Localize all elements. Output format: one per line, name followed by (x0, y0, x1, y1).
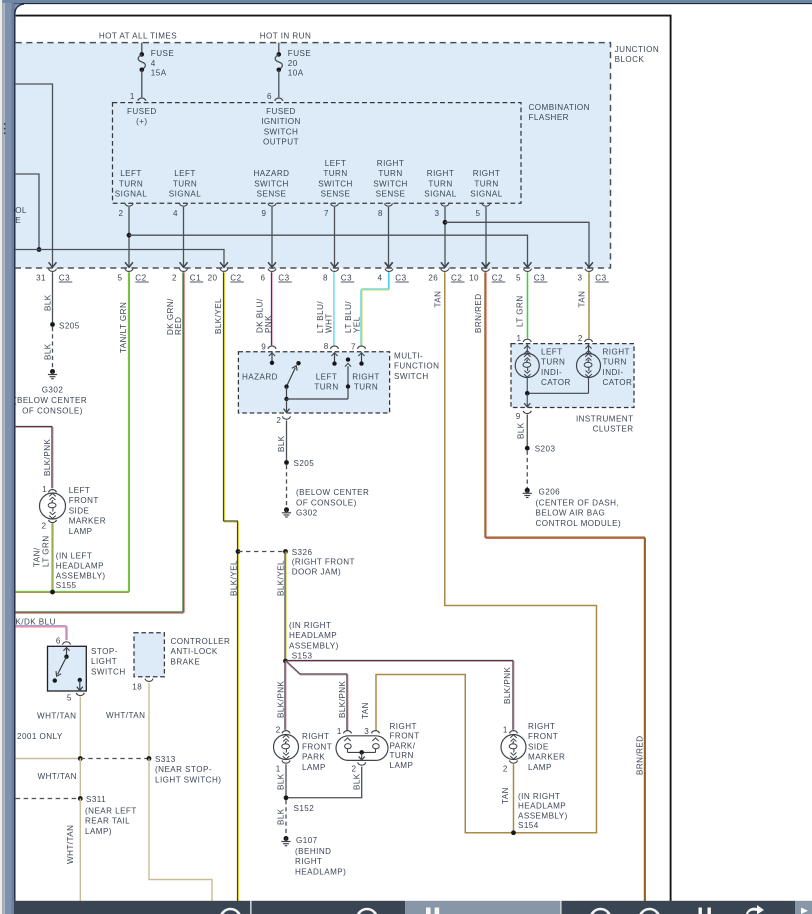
multi-function switch box (238, 352, 389, 413)
svg-text:G302: G302 (42, 386, 64, 395)
svg-text:WHT: WHT (325, 313, 334, 333)
toolbar icon circle 1 (221, 909, 241, 914)
svg-text:HEADLAMP): HEADLAMP) (295, 867, 346, 876)
wire LT BLU/YEL from 4 C3 (387, 272, 389, 289)
svg-text:OL: OL (15, 206, 27, 215)
svg-text:C2: C2 (492, 273, 503, 282)
svg-text:TURN: TURN (390, 751, 414, 760)
wire TAN/LT GRN from 5 C2 (127, 272, 129, 592)
svg-text:2: 2 (276, 726, 281, 735)
toolbar icon pause (426, 908, 431, 914)
splice S153 (283, 659, 288, 664)
svg-text:FUSE: FUSE (151, 49, 175, 58)
fuse F4 15A (141, 43, 143, 55)
svg-text:G107: G107 (296, 836, 318, 845)
wire WHT/TAN CAB to bottom jog (149, 759, 212, 902)
svg-text:C2: C2 (230, 273, 241, 282)
svg-text:S311: S311 (86, 795, 106, 804)
svg-text:BLK/PNK: BLK/PNK (503, 667, 512, 704)
svg-text:LAMP: LAMP (69, 527, 93, 536)
svg-text:SWITCH: SWITCH (254, 179, 289, 188)
left front side marker lamp (40, 493, 66, 519)
wire flasher pin 3 to connector row (444, 207, 446, 267)
splice S203 (525, 446, 530, 451)
svg-text:S152: S152 (294, 804, 315, 813)
svg-text:3: 3 (578, 273, 583, 282)
park/turn internal bus (348, 751, 376, 753)
splice S205 (MFS) (284, 460, 289, 465)
toolbar dark segment 3 (560, 901, 562, 914)
toolbar right triangle (801, 908, 808, 914)
svg-text:BLK/PNK: BLK/PNK (43, 439, 52, 476)
svg-text:BLK: BLK (44, 343, 53, 360)
svg-text:RIGHT: RIGHT (528, 722, 555, 731)
MFS pin 2 (283, 416, 291, 419)
right front park/turn lamp pin 2 (358, 762, 366, 765)
svg-text:LEFT: LEFT (69, 486, 91, 495)
splice on pin3 wire (443, 220, 448, 225)
svg-text:(RIGHT FRONT: (RIGHT FRONT (292, 557, 355, 566)
svg-text:BLK: BLK (277, 773, 286, 790)
svg-text:8: 8 (323, 273, 328, 282)
ground G206 (525, 488, 530, 493)
svg-text:TURN: TURN (354, 383, 378, 392)
svg-text:BLK: BLK (353, 773, 362, 790)
svg-text:FLASHER: FLASHER (529, 113, 569, 122)
left front side marker lamp pin 1 (49, 490, 57, 493)
svg-text:SENSE: SENSE (376, 190, 406, 199)
svg-text:LAMP): LAMP) (85, 827, 112, 836)
svg-text:(IN RIGHT: (IN RIGHT (289, 621, 331, 630)
svg-text:HEADLAMP: HEADLAMP (518, 802, 566, 811)
svg-text:2: 2 (172, 273, 177, 282)
wire left module to connector 20 C2 (16, 250, 224, 267)
svg-text:G206: G206 (539, 487, 561, 496)
stop-light switch pin 6 (63, 642, 71, 645)
svg-text:7: 7 (324, 209, 329, 218)
left front side marker lamp pin 2 (49, 520, 57, 523)
wire BLK from 31 C3 (52, 272, 54, 324)
svg-text:LEFT: LEFT (120, 169, 142, 178)
svg-text:1: 1 (276, 765, 281, 774)
svg-text:PNK: PNK (264, 315, 273, 333)
svg-text:REAR TAIL: REAR TAIL (85, 817, 130, 826)
toolbar divider (250, 901, 252, 914)
svg-text:K/DK BLU: K/DK BLU (15, 618, 55, 627)
svg-text:S326: S326 (292, 548, 313, 557)
splice S311 (78, 796, 83, 801)
right front park lamp pin 1 (282, 760, 290, 763)
right front park/turn lamp pin 3 (372, 731, 380, 734)
CAB pin 18 (145, 679, 153, 682)
svg-text:(BELOW CENTER: (BELOW CENTER (14, 396, 87, 405)
svg-text:18: 18 (132, 683, 142, 692)
splice S205 (50, 322, 55, 327)
left turn indicator lamp (515, 354, 539, 378)
wire BLK dashed to G107 (285, 800, 287, 836)
cluster pin 2 (585, 339, 593, 342)
svg-text:CATOR: CATOR (541, 378, 571, 387)
wire branch to connector 3 C3 (445, 222, 589, 267)
svg-text:C2: C2 (135, 273, 146, 282)
ground G302 (below center of console) (284, 507, 289, 512)
svg-text:TURN: TURN (173, 179, 197, 188)
svg-text:LEFT: LEFT (541, 348, 563, 357)
svg-text:SIDE: SIDE (69, 506, 90, 515)
svg-text:TAN: TAN (501, 787, 510, 804)
svg-text:LIGHT: LIGHT (91, 657, 117, 666)
svg-text:SWITCH: SWITCH (373, 179, 408, 188)
right front side marker lamp pin 1 (510, 731, 518, 734)
wire flasher pin 2 to connector row (128, 207, 130, 267)
toolbar icon curved arrow (746, 905, 764, 914)
wire flasher pin 8 to connector row (388, 207, 390, 267)
splice S152 (284, 795, 289, 800)
svg-text:CONTROLLER: CONTROLLER (171, 637, 231, 646)
MFS pin 7 (358, 346, 366, 349)
svg-text:INSTRUMENT: INSTRUMENT (576, 415, 634, 424)
svg-text:C3: C3 (341, 273, 352, 282)
svg-text:WHT/TAN: WHT/TAN (37, 711, 76, 720)
wire BLK/YEL S326 to S153 (284, 552, 286, 662)
svg-text:ASSEMBLY): ASSEMBLY) (56, 572, 106, 581)
svg-text:BRN/RED: BRN/RED (636, 735, 645, 775)
MFS hazard fixed contact (296, 361, 300, 365)
svg-text:SWITCH: SWITCH (318, 179, 353, 188)
svg-text:TURN: TURN (119, 179, 143, 188)
stop-light switch pin 5 (76, 693, 84, 696)
svg-text:TAN: TAN (361, 702, 370, 719)
MFS turn blade (347, 366, 349, 399)
MFS right turn stub pin7 (361, 352, 363, 363)
svg-text:HEADLAMP: HEADLAMP (56, 561, 104, 570)
svg-text:9: 9 (261, 209, 266, 218)
wire BLK cluster pin9 to S203 (526, 415, 528, 449)
svg-text:2: 2 (503, 765, 508, 774)
svg-text:4: 4 (151, 59, 156, 68)
svg-text:1: 1 (42, 485, 47, 494)
svg-text:(+): (+) (136, 117, 147, 126)
svg-text:10A: 10A (288, 68, 304, 77)
MFS pin 9 (268, 346, 276, 349)
svg-text:FRONT: FRONT (302, 742, 332, 751)
svg-text:2001 ONLY: 2001 ONLY (17, 732, 63, 741)
flasher pin 2 (125, 203, 133, 206)
svg-text:FRONT: FRONT (528, 732, 558, 741)
right turn indicator lamp (577, 354, 601, 378)
junction block dashed border (16, 43, 611, 268)
svg-text:FUSED: FUSED (266, 107, 296, 116)
svg-text:5: 5 (67, 694, 72, 703)
svg-text:(IN LEFT: (IN LEFT (56, 551, 92, 560)
connector 26 C2 (441, 262, 449, 267)
svg-text:1: 1 (503, 726, 508, 735)
svg-text:10: 10 (469, 273, 479, 282)
svg-text:SWITCH: SWITCH (264, 127, 299, 136)
connector 20 C2 (220, 262, 228, 267)
right front side marker lamp pin 2 (510, 760, 518, 763)
svg-text:STOP-: STOP- (91, 647, 118, 656)
wire BLK/PNK left module to lamp (16, 425, 53, 427)
svg-text:2: 2 (351, 765, 356, 774)
splice S313 (147, 756, 152, 761)
svg-text:31: 31 (36, 273, 46, 282)
svg-text:WHT/TAN: WHT/TAN (38, 772, 77, 781)
flasher pin 5 (482, 203, 490, 206)
svg-text:COMBINATION: COMBINATION (529, 103, 590, 112)
svg-text:C3: C3 (59, 273, 70, 282)
svg-text:PARK/: PARK/ (390, 741, 416, 750)
svg-text:CLUSTER: CLUSTER (593, 425, 634, 434)
wire WHT/TAN stop-light pin5 down (79, 697, 81, 759)
cluster internal bus (526, 378, 528, 394)
svg-text:RIGHT: RIGHT (352, 372, 379, 381)
svg-text:LT GRN: LT GRN (515, 295, 524, 327)
svg-text:BLK/YEL: BLK/YEL (230, 560, 239, 596)
svg-text:LEFT: LEFT (174, 169, 196, 178)
svg-text:YEL: YEL (353, 316, 362, 333)
svg-text:BLK/PNK: BLK/PNK (338, 681, 347, 718)
svg-text:FUSE: FUSE (288, 49, 312, 58)
park/turn filament 1 (344, 738, 350, 741)
svg-text:WHT/TAN: WHT/TAN (106, 711, 145, 720)
wire BLK park/turn pin2 to S152 bus (286, 767, 362, 798)
svg-text:TURN: TURN (428, 179, 452, 188)
window top blue bar (2, 0, 812, 3)
MFS common bus (287, 398, 349, 400)
svg-text:1: 1 (130, 92, 135, 101)
svg-text:BLOCK: BLOCK (615, 55, 645, 64)
svg-text:OUTPUT: OUTPUT (263, 138, 299, 147)
svg-text:5: 5 (118, 273, 123, 282)
svg-text:MULTI-: MULTI- (394, 351, 423, 360)
svg-text:C2: C2 (451, 273, 462, 282)
splice S155 (50, 590, 55, 595)
svg-text:BRN/RED: BRN/RED (474, 293, 483, 333)
svg-text:BLK: BLK (277, 435, 286, 452)
svg-text:SIGNAL: SIGNAL (424, 190, 456, 199)
svg-text:2: 2 (578, 334, 583, 343)
svg-text:TAN: TAN (578, 291, 587, 308)
svg-text:CATOR: CATOR (603, 378, 633, 387)
svg-text:FUSED: FUSED (127, 107, 157, 116)
svg-text:8: 8 (324, 342, 329, 351)
svg-text:20: 20 (288, 59, 298, 68)
wire left module to connector 31 C3 (16, 84, 53, 267)
svg-text:TAN: TAN (433, 291, 442, 308)
MFS hazard blade (287, 368, 296, 387)
wire flasher pin 5 to connector row (485, 207, 487, 267)
svg-text:TAN/: TAN/ (32, 547, 41, 567)
svg-text:(BELOW CENTER: (BELOW CENTER (296, 488, 369, 497)
svg-text:SENSE: SENSE (257, 190, 287, 199)
connector 10 C2 (482, 262, 490, 267)
svg-text:C3: C3 (278, 273, 289, 282)
flasher pin 3 (441, 203, 449, 206)
ground G302 (50, 369, 55, 374)
svg-text:IGNITION: IGNITION (261, 117, 301, 126)
svg-text:7: 7 (351, 342, 356, 351)
wire flasher pin 4 to connector row (183, 207, 185, 267)
wire LT BLU/WHT from 8 C3 (333, 272, 335, 345)
splice S154 (511, 830, 516, 835)
svg-text:SENSE: SENSE (321, 190, 351, 199)
MFS left turn stub pin8 (334, 352, 336, 363)
svg-text:TURN: TURN (314, 383, 338, 392)
svg-text:INDI-: INDI- (541, 368, 562, 377)
svg-text:RIGHT: RIGHT (302, 732, 329, 741)
wire WHT/TAN below S313 (79, 759, 81, 799)
svg-text:LAMP: LAMP (390, 761, 414, 770)
svg-text:PARK: PARK (302, 753, 325, 762)
svg-text:5: 5 (475, 209, 480, 218)
svg-text:TURN: TURN (474, 179, 498, 188)
wire WHT/TAN from frame (16, 758, 81, 760)
svg-text:4: 4 (173, 209, 178, 218)
svg-text:BLK: BLK (277, 808, 286, 825)
svg-text:G302: G302 (296, 508, 318, 517)
svg-text:RIGHT: RIGHT (427, 169, 454, 178)
splice S311 dashed link (16, 798, 81, 800)
wire TAN from 3 C3 (588, 272, 590, 338)
connector 31 C3 (49, 262, 57, 267)
svg-text:OF CONSOLE): OF CONSOLE) (22, 407, 83, 416)
splice S326 (283, 549, 288, 554)
splice dot on BLK/YEL (236, 549, 241, 554)
wire DK GRN/RED from 2 C1 (182, 272, 184, 612)
toolbar dark segment 1 (14, 901, 250, 914)
svg-text:S203: S203 (535, 445, 556, 454)
svg-text:ASSEMBLY): ASSEMBLY) (289, 641, 339, 650)
wire BRN/RED from 10 C2 (484, 272, 486, 538)
svg-text:TURN: TURN (603, 358, 627, 367)
MFS output to pin 2 (286, 399, 288, 412)
svg-text:SIGNAL: SIGNAL (470, 190, 502, 199)
svg-text:S205: S205 (294, 459, 315, 468)
svg-text:6: 6 (267, 92, 272, 101)
svg-text:S205: S205 (59, 322, 80, 331)
svg-text:(BEHIND: (BEHIND (295, 847, 331, 856)
svg-text:JUNCTION: JUNCTION (615, 45, 660, 54)
svg-text:LT GRN: LT GRN (42, 535, 51, 567)
svg-text:BRAKE: BRAKE (171, 657, 201, 666)
wire BLK/PNK S153 to park lamp (284, 661, 286, 730)
cluster pin 1 (523, 339, 531, 342)
toolbar icon bars (699, 908, 702, 914)
svg-text:5: 5 (516, 273, 521, 282)
right front park lamp (274, 735, 299, 760)
svg-text:BLK: BLK (517, 422, 526, 439)
wire BLK dashed to G302 (52, 327, 54, 370)
svg-text:SIGNAL: SIGNAL (115, 190, 147, 199)
wire BLK dashed to G302 (MFS) (286, 465, 288, 508)
svg-text:MARKER: MARKER (528, 753, 565, 762)
svg-text:9: 9 (516, 412, 521, 421)
MFS pin 8 (331, 346, 339, 349)
svg-text:TAN/LT GRN: TAN/LT GRN (119, 302, 128, 353)
splice dot on WHT/TAN (78, 756, 83, 761)
svg-text:RIGHT: RIGHT (377, 159, 404, 168)
stop-light switch box (48, 646, 87, 691)
svg-text:SWITCH: SWITCH (91, 667, 126, 676)
right front park/turn lamp body (336, 736, 388, 761)
flasher pin 7 (331, 203, 339, 206)
wire BLK/PNK S153 to right side marker (286, 659, 514, 661)
connector 4 C3 (385, 262, 393, 267)
connector 5 C3 (524, 262, 532, 267)
wire TAN from 26 C2 to park/turn lamp (376, 272, 597, 833)
svg-text:15A: 15A (151, 68, 167, 77)
window left dark border (14, 4, 16, 914)
flasher pin 9 (268, 203, 276, 206)
instrument cluster box (511, 344, 634, 408)
desktop gray strip left edge (0, 0, 2, 914)
park/turn filament 3 (372, 738, 378, 741)
svg-text:HOT IN RUN: HOT IN RUN (260, 31, 312, 40)
svg-text:BELOW AIR BAG: BELOW AIR BAG (536, 509, 606, 518)
svg-text:2: 2 (42, 522, 47, 531)
connector 8 C3 (331, 262, 339, 267)
svg-text:8: 8 (378, 209, 383, 218)
svg-text:C3: C3 (534, 273, 545, 282)
window top dark border (14, 3, 812, 4)
MFS turn fixed contact (346, 357, 350, 361)
svg-text:RIGHT: RIGHT (390, 722, 417, 731)
svg-text:3: 3 (364, 727, 369, 736)
connector 2 C1 (180, 262, 188, 267)
wire TAN marker pin2 to S154 (513, 764, 515, 833)
connector 5 C2 (125, 262, 133, 267)
MFS hazard common (284, 384, 288, 388)
svg-text:SWITCH: SWITCH (394, 372, 429, 381)
MFS hazard stub pin9 (271, 352, 273, 362)
svg-text:LEFT: LEFT (316, 372, 338, 381)
flasher pin 4 (180, 203, 188, 206)
connector 6 C3 (268, 262, 276, 267)
svg-text:4: 4 (378, 273, 383, 282)
toolbar icon circle 3 (591, 909, 611, 914)
ground G107 (284, 836, 289, 841)
svg-text:RIGHT: RIGHT (473, 169, 500, 178)
svg-text:E: E (15, 216, 21, 225)
junction dot left module wire (37, 247, 42, 252)
svg-text:DOOR JAM): DOOR JAM) (292, 568, 341, 577)
wire branch to connector 5 C3 (129, 235, 528, 267)
wire WHT/TAN to bottom (79, 799, 81, 902)
svg-text:HAZARD: HAZARD (242, 372, 278, 381)
toolbar light segment (405, 901, 560, 914)
wire BLK dashed to G206 (526, 451, 528, 489)
svg-text:TURN: TURN (378, 169, 402, 178)
window rounded corner (14, 4, 24, 14)
flasher pin 8 (385, 203, 393, 206)
wire BLK MFS pin2 to S205 (286, 420, 288, 462)
svg-text:SIGNAL: SIGNAL (169, 190, 201, 199)
svg-text:C1: C1 (190, 273, 201, 282)
svg-text:C3: C3 (595, 273, 606, 282)
svg-text:TURN: TURN (541, 358, 565, 367)
svg-text:ASSEMBLY): ASSEMBLY) (518, 811, 568, 820)
svg-text:(CENTER OF DASH,: (CENTER OF DASH, (536, 498, 620, 507)
svg-text:FRONT: FRONT (69, 496, 99, 505)
toolbar icon circle 2 (357, 909, 377, 914)
splice S326 dashed link (238, 551, 286, 553)
junction block fill (16, 43, 611, 268)
stop-light switch interior (66, 647, 68, 657)
wire TAN/LT GRN lamp pin2 to S155 (51, 523, 53, 592)
svg-text:RED: RED (174, 317, 183, 335)
svg-text:C3: C3 (395, 273, 406, 282)
